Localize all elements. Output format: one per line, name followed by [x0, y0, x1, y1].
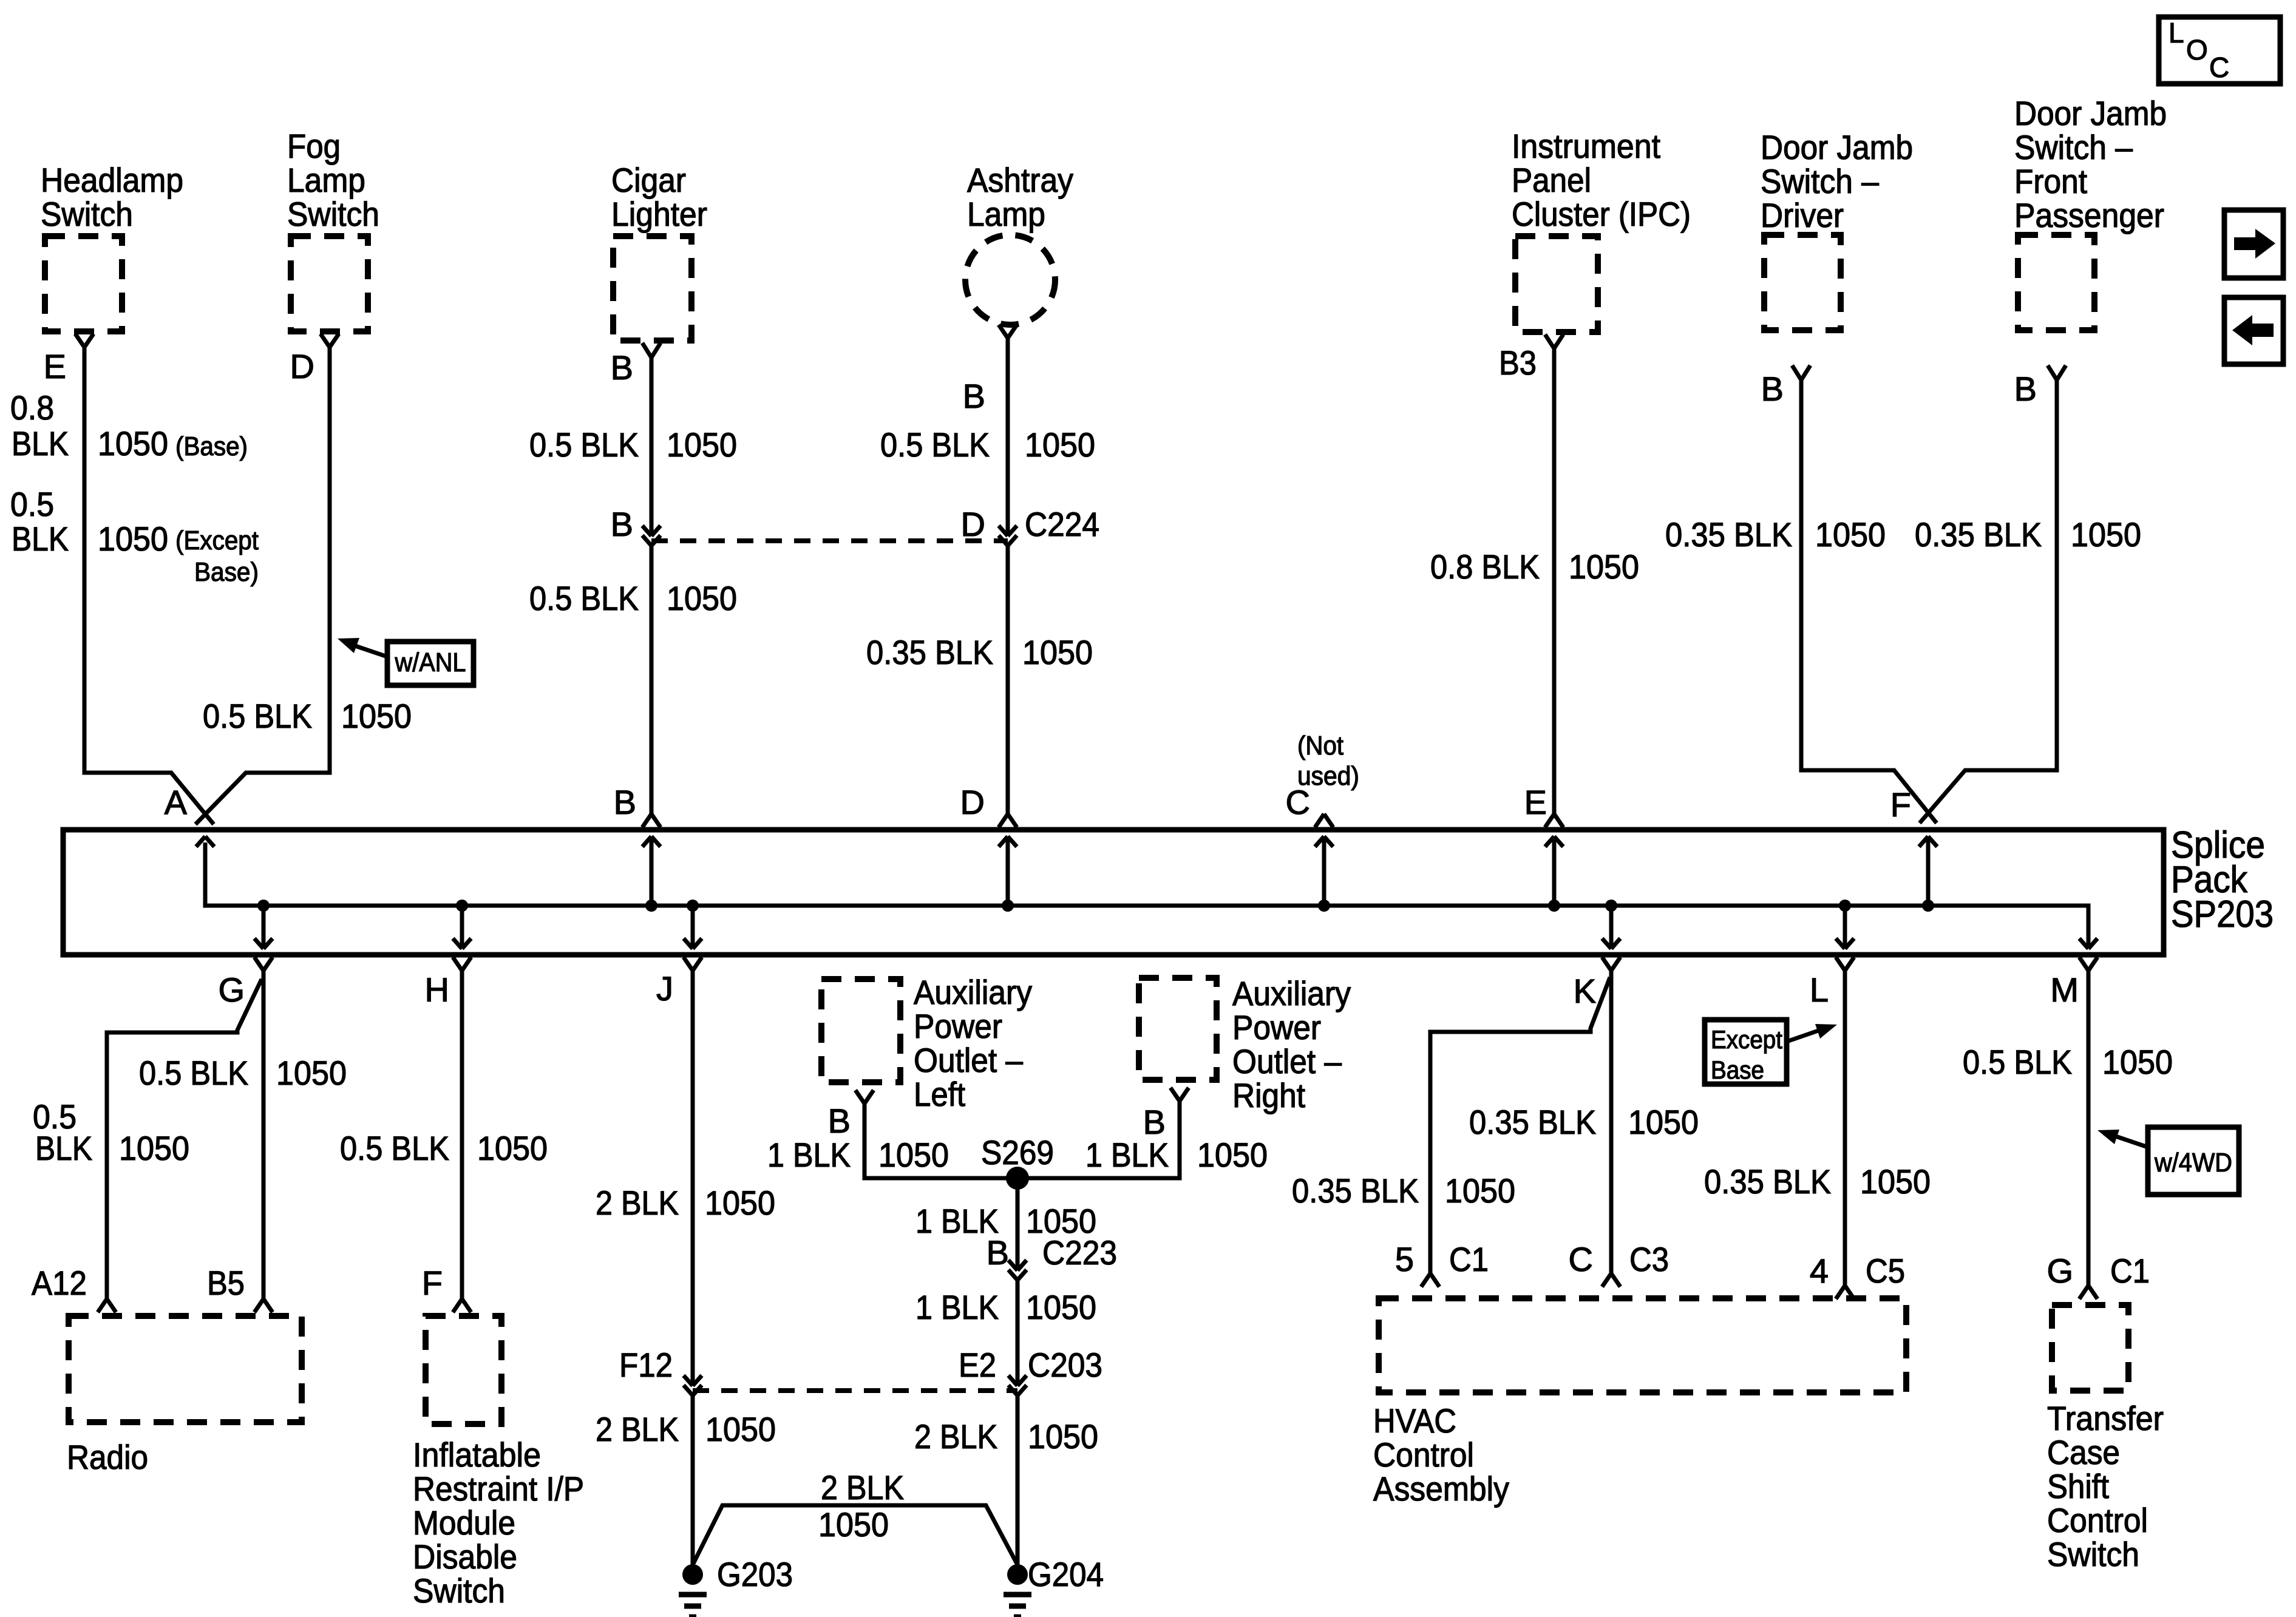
bus junction dot and up-arrow at terminal D: [1002, 900, 1014, 912]
ground G204: [1007, 1564, 1028, 1585]
svg-text:1050: 1050: [341, 697, 412, 735]
svg-text:Switch: Switch: [2047, 1535, 2139, 1573]
bus junction dot and up-arrow at terminal F: [1922, 900, 1934, 912]
svg-text:1050: 1050: [1628, 1103, 1699, 1141]
svg-text:Restraint I/P: Restraint I/P: [413, 1470, 584, 1508]
bus junction dot and up-arrow at terminal B: [645, 900, 657, 912]
wire from Aux Power Outlet Right pin B to splice S269 (1 BLK 1050): [1017, 1101, 1180, 1178]
svg-text:F: F: [422, 1264, 443, 1302]
svg-text:(Except: (Except: [175, 526, 259, 555]
arrow from w/ANL box to fog lamp wire: [355, 646, 387, 657]
svg-text:E: E: [1524, 783, 1547, 821]
svg-text:Control: Control: [1373, 1436, 1474, 1474]
wire from splice pin K to HVAC pin C C3 (0.35 BLK 1050): [1609, 971, 1614, 1273]
pin B3 of Instrument Panel Cluster: [1545, 334, 1554, 348]
wire from splice pin J to in-line connector C203 pin F12 (2 BLK 1050): [691, 971, 695, 1386]
svg-text:Passenger: Passenger: [2014, 196, 2164, 234]
wire from Door Jamb Switch Driver to splice node F (0.35 BLK 1050): [1801, 380, 1937, 823]
pin G C1 of Transfer Case Shift Control Switch: [2079, 1286, 2088, 1299]
svg-text:0.5 BLK: 0.5 BLK: [880, 425, 990, 464]
svg-text:C223: C223: [1042, 1233, 1117, 1272]
pin 4 C5 of HVAC Control Assembly: [1836, 1286, 1845, 1299]
svg-text:Control: Control: [2047, 1501, 2148, 1539]
svg-text:(Base): (Base): [175, 432, 248, 461]
pin C chevron on splice pack top edge (not used): [1315, 814, 1324, 827]
svg-text:0.5 BLK: 0.5 BLK: [1963, 1043, 2072, 1081]
wire from splice pin H to Inflatable Restraint module pin F (0.5 BLK 1050): [460, 971, 464, 1299]
component Inflatable Restraint I/P Module Disable Switch (dashed box): [426, 1316, 501, 1424]
svg-text:A: A: [165, 783, 188, 821]
svg-text:H: H: [425, 971, 449, 1009]
svg-text:Ashtray: Ashtray: [967, 161, 1073, 199]
svg-text:Door Jamb: Door Jamb: [1761, 128, 1913, 166]
left-arrow legend box: [2224, 297, 2283, 364]
svg-text:1050: 1050: [1445, 1171, 1515, 1210]
dashed connector line C203 between F12 and E2: [693, 1388, 1017, 1393]
svg-text:HVAC: HVAC: [1373, 1402, 1456, 1440]
svg-text:Auxiliary: Auxiliary: [914, 973, 1032, 1011]
wire from splice pin G to Radio pin B5 (0.5 BLK 1050): [262, 971, 266, 1299]
splice pin D on top edge: [999, 814, 1008, 827]
splice pin E on top edge: [1545, 814, 1554, 827]
svg-text:w/ANL: w/ANL: [395, 648, 466, 677]
svg-text:Lamp: Lamp: [287, 161, 365, 199]
svg-text:C1: C1: [2110, 1252, 2150, 1290]
svg-text:Shift: Shift: [2047, 1467, 2109, 1505]
svg-text:C1: C1: [1449, 1240, 1489, 1278]
svg-text:1050: 1050: [1197, 1136, 1268, 1174]
svg-text:C5: C5: [1866, 1252, 1905, 1290]
svg-text:E: E: [44, 347, 66, 385]
svg-text:B3: B3: [1499, 344, 1537, 382]
svg-text:Disable: Disable: [413, 1537, 517, 1576]
svg-text:1050: 1050: [98, 424, 168, 463]
jumper wire 2 BLK 1050 between grounds G203 and G204: [693, 1505, 1017, 1565]
component HVAC Control Assembly (dashed box): [1379, 1298, 1906, 1392]
svg-text:Left: Left: [914, 1075, 965, 1113]
svg-text:A12: A12: [32, 1264, 87, 1302]
svg-text:B: B: [2014, 370, 2037, 408]
pin B of Door Jamb Switch - Front Passenger: [2048, 365, 2057, 380]
splice pack SP203 box: [63, 830, 2164, 955]
svg-text:Except: Except: [1711, 1025, 1782, 1054]
svg-text:1050: 1050: [705, 1410, 776, 1448]
svg-text:C203: C203: [1028, 1346, 1102, 1384]
wire from splice pin L to HVAC pin 4 C5 (0.35 BLK 1050): [1843, 971, 1847, 1286]
pin B of Auxiliary Power Outlet - Left: [855, 1090, 864, 1103]
wire from Ashtray Lamp pin B to in-line connector C224 (0.5 BLK 1050): [1006, 338, 1010, 536]
dashed connector line C224 between cigar and ashtray wires: [651, 538, 1008, 543]
svg-text:K: K: [1574, 972, 1596, 1010]
svg-text:Driver: Driver: [1761, 196, 1844, 234]
svg-text:0.35 BLK: 0.35 BLK: [1292, 1171, 1419, 1210]
svg-text:L: L: [1810, 971, 1829, 1009]
bus junction dot and up-arrow at terminal E: [1548, 900, 1560, 912]
svg-text:1050: 1050: [1860, 1162, 1931, 1201]
pin F of Inflatable Restraint I/P Module Disable Switch: [453, 1299, 462, 1312]
svg-text:Auxiliary: Auxiliary: [1232, 974, 1351, 1012]
splice pin J on bottom edge: [684, 957, 693, 971]
wire from Aux Power Outlet Left pin B to splice S269 (1 BLK 1050): [864, 1103, 1017, 1178]
svg-text:0.5 BLK: 0.5 BLK: [139, 1054, 248, 1092]
svg-text:Base): Base): [194, 557, 259, 587]
bus down-arrow at terminal M: [2079, 938, 2088, 949]
svg-text:G203: G203: [717, 1555, 793, 1593]
svg-text:E2: E2: [959, 1346, 996, 1384]
svg-text:BLK: BLK: [35, 1129, 92, 1167]
svg-text:0.35 BLK: 0.35 BLK: [1704, 1162, 1831, 1201]
svg-text:B: B: [611, 505, 633, 543]
svg-text:0.5 BLK: 0.5 BLK: [529, 579, 639, 617]
svg-text:Cigar: Cigar: [611, 161, 686, 199]
wire from splice pin M to Transfer Case pin G C1 (0.5 BLK 1050): [2087, 971, 2091, 1286]
svg-text:Cluster (IPC): Cluster (IPC): [1512, 195, 1691, 233]
wire from IPC pin B3 to splice pin E (0.8 BLK 1050): [1552, 348, 1557, 814]
svg-text:0.5: 0.5: [10, 485, 54, 523]
splice pin B on top edge: [642, 814, 651, 827]
svg-text:Switch: Switch: [413, 1571, 505, 1610]
splice pin M on bottom edge: [2079, 957, 2088, 971]
svg-text:1050: 1050: [477, 1129, 548, 1167]
bus junction dot and down-arrow at terminal J: [687, 900, 699, 912]
pin B of Cigar Lighter: [642, 343, 651, 358]
pin 5 C1 of HVAC Control Assembly: [1421, 1273, 1430, 1287]
svg-text:Outlet –: Outlet –: [914, 1041, 1024, 1079]
svg-text:Fog: Fog: [287, 127, 341, 165]
svg-text:F: F: [1890, 785, 1911, 824]
svg-text:G: G: [2046, 1252, 2073, 1290]
svg-text:0.35 BLK: 0.35 BLK: [1665, 515, 1792, 554]
callout box w/ANL: [387, 642, 474, 685]
svg-text:Lamp: Lamp: [967, 195, 1045, 233]
wire from Fog Lamp Switch pin D to splice node A (0.5 BLK 1050): [195, 347, 330, 824]
svg-text:BLK: BLK: [12, 424, 69, 463]
svg-text:(Not: (Not: [1297, 731, 1343, 761]
svg-text:Door Jamb: Door Jamb: [2014, 94, 2167, 132]
svg-text:C: C: [1286, 783, 1310, 821]
svg-text:1 BLK: 1 BLK: [915, 1288, 999, 1326]
svg-text:Switch: Switch: [41, 195, 133, 233]
component Instrument Panel Cluster (dashed box): [1515, 236, 1598, 332]
svg-text:0.5 BLK: 0.5 BLK: [529, 425, 639, 464]
svg-text:Radio: Radio: [67, 1438, 148, 1476]
splice pin K on bottom edge: [1602, 957, 1611, 971]
svg-text:0.8 BLK: 0.8 BLK: [1430, 547, 1540, 586]
wire from Headlamp Switch pin E to splice node A (0.8/0.5 BLK 1050): [84, 347, 214, 824]
wire from connector C223 to connector C203 pin E2 (1 BLK 1050): [1016, 1280, 1020, 1386]
svg-text:Transfer: Transfer: [2047, 1399, 2164, 1437]
svg-text:B5: B5: [207, 1264, 245, 1302]
svg-text:1050: 1050: [667, 579, 737, 617]
svg-text:0.35 BLK: 0.35 BLK: [866, 633, 993, 671]
svg-text:1050: 1050: [1028, 1417, 1098, 1456]
svg-text:1050: 1050: [818, 1505, 889, 1544]
bus junction dot and down-arrow at terminal L: [1839, 900, 1851, 912]
svg-text:O: O: [2186, 34, 2208, 66]
bus junction dot and down-arrow at terminal H: [456, 900, 468, 912]
svg-text:Base: Base: [1711, 1056, 1764, 1084]
svg-text:Switch: Switch: [287, 195, 379, 233]
svg-text:5: 5: [1395, 1240, 1414, 1278]
svg-text:Power: Power: [1232, 1008, 1321, 1046]
svg-text:Panel: Panel: [1512, 161, 1591, 199]
component Ashtray Lamp (dashed circle): [965, 235, 1055, 325]
in-line connector C203 pin F12 on J wire: [684, 1375, 693, 1386]
pin E of Headlamp Switch: [75, 334, 84, 347]
component Transfer Case Shift Control Switch (dashed box): [2052, 1305, 2128, 1391]
LOC legend box: [2159, 17, 2280, 84]
svg-text:SP203: SP203: [2171, 893, 2274, 935]
splice pin H on bottom edge: [453, 957, 462, 971]
splice S269 junction dot: [1006, 1167, 1029, 1190]
component Fog Lamp Switch (dashed box): [291, 236, 368, 331]
svg-text:C: C: [1569, 1240, 1593, 1278]
pin A12 of Radio: [98, 1299, 107, 1312]
pin B of Door Jamb Switch - Driver: [1792, 365, 1801, 380]
svg-text:B: B: [1761, 370, 1784, 408]
svg-text:Outlet –: Outlet –: [1232, 1042, 1342, 1080]
svg-text:Instrument: Instrument: [1512, 127, 1660, 165]
svg-text:w/4WD: w/4WD: [2154, 1148, 2232, 1178]
wire from connector C224 to splice pin B (0.5 BLK 1050): [650, 546, 654, 814]
svg-text:1 BLK: 1 BLK: [767, 1136, 851, 1174]
bus junction dot and up-arrow at terminal C: [1318, 900, 1330, 912]
svg-text:1050: 1050: [2071, 515, 2141, 554]
svg-text:G204: G204: [1028, 1555, 1104, 1593]
svg-text:2 BLK: 2 BLK: [596, 1410, 679, 1448]
svg-text:1050: 1050: [1026, 1288, 1096, 1326]
svg-text:2 BLK: 2 BLK: [596, 1184, 679, 1222]
wire from Cigar Lighter pin B to in-line connector C224 (0.5 BLK 1050): [650, 358, 654, 536]
svg-text:J: J: [656, 969, 673, 1008]
pin B of Auxiliary Power Outlet - Right: [1170, 1088, 1180, 1101]
svg-text:D: D: [960, 783, 985, 821]
in-line connector C224 pin D on ashtray lamp wire: [999, 526, 1008, 536]
wire from Door Jamb Switch Front Passenger to splice node F (0.35 BLK 1050): [1920, 380, 2057, 823]
component Cigar Lighter (dashed box): [613, 236, 691, 341]
in-line connector C224 pin B on cigar lighter wire: [642, 526, 651, 536]
wire from connector C203 to ground G204 (2 BLK 1050): [1016, 1395, 1020, 1565]
svg-text:Assembly: Assembly: [1373, 1470, 1509, 1508]
svg-text:1050: 1050: [1815, 515, 1886, 554]
svg-text:G: G: [218, 971, 245, 1009]
component Headlamp Switch (dashed box): [45, 236, 122, 331]
svg-text:B: B: [614, 783, 636, 821]
svg-text:B: B: [987, 1233, 1009, 1272]
bus junction dot and down-arrow at terminal G: [257, 900, 270, 912]
svg-text:L: L: [2169, 17, 2184, 49]
pin B5 of Radio: [254, 1299, 263, 1312]
svg-text:Switch –: Switch –: [1761, 162, 1880, 200]
svg-text:B: B: [828, 1102, 851, 1140]
svg-text:D: D: [290, 347, 314, 385]
svg-text:0.8: 0.8: [10, 388, 54, 427]
svg-text:2 BLK: 2 BLK: [821, 1468, 904, 1507]
splice pin G on bottom edge: [254, 957, 263, 971]
wire from connector C203 to ground G203 (2 BLK 1050): [691, 1395, 695, 1565]
arrow from w/4WD box to M wire: [2116, 1136, 2148, 1147]
component Auxiliary Power Outlet - Left (dashed box): [821, 979, 900, 1082]
splice pin L on bottom edge: [1836, 957, 1845, 971]
in-line connector C203 pin E2: [1008, 1375, 1017, 1386]
svg-text:C3: C3: [1629, 1240, 1669, 1278]
svg-text:Inflatable: Inflatable: [413, 1436, 541, 1474]
svg-text:Power: Power: [914, 1007, 1002, 1045]
svg-text:C: C: [2209, 52, 2229, 83]
svg-text:Lighter: Lighter: [611, 195, 707, 233]
svg-text:0.5 BLK: 0.5 BLK: [340, 1129, 449, 1167]
bus junction dot and down-arrow at terminal K: [1605, 900, 1617, 912]
component Auxiliary Power Outlet - Right (dashed box): [1139, 978, 1217, 1080]
bus up-arrow at terminal A: [196, 836, 205, 847]
svg-text:Case: Case: [2047, 1433, 2120, 1471]
wire from S269 to in-line connector C223 pin B (1 BLK 1050): [1016, 1178, 1020, 1270]
svg-text:1050: 1050: [1022, 633, 1093, 671]
pin B of Ashtray Lamp: [999, 325, 1008, 338]
pin C C3 of HVAC Control Assembly: [1602, 1273, 1611, 1287]
component Radio (dashed box): [69, 1316, 302, 1422]
in-line connector C223 pin B: [1008, 1260, 1017, 1270]
svg-text:0.35 BLK: 0.35 BLK: [1915, 515, 2042, 554]
svg-text:1050: 1050: [276, 1054, 347, 1092]
svg-text:2 BLK: 2 BLK: [914, 1417, 997, 1456]
svg-text:S269: S269: [981, 1133, 1054, 1171]
component Door Jamb Switch - Front Passenger (dashed box): [2018, 235, 2094, 330]
svg-text:F12: F12: [619, 1346, 673, 1384]
svg-text:C224: C224: [1025, 505, 1099, 543]
svg-text:Right: Right: [1232, 1076, 1305, 1114]
branch wire from G wire to Radio pin A12 (0.5 BLK 1050): [107, 979, 262, 1299]
splice pack internal bus wire: [205, 842, 2088, 947]
svg-text:1050: 1050: [1025, 425, 1095, 464]
svg-text:B: B: [611, 348, 633, 387]
wire from connector C224 to splice pin D (0.35 BLK 1050): [1006, 546, 1010, 814]
svg-text:0.35 BLK: 0.35 BLK: [1469, 1103, 1596, 1141]
pin D of Fog Lamp Switch: [321, 334, 330, 347]
callout box w/4WD: [2148, 1127, 2239, 1195]
svg-text:Switch –: Switch –: [2014, 128, 2133, 166]
callout box Except Base: [1705, 1020, 1787, 1084]
svg-text:1 BLK: 1 BLK: [1085, 1136, 1169, 1174]
svg-text:1050: 1050: [98, 520, 168, 558]
arrow from Except Base box to L wire: [1787, 1031, 1818, 1042]
svg-text:Front: Front: [2014, 162, 2087, 200]
ground G203: [682, 1564, 703, 1585]
svg-text:M: M: [2050, 971, 2079, 1009]
svg-text:Headlamp: Headlamp: [41, 161, 183, 199]
branch wire from K to HVAC pin 5 C1 (0.35 BLK 1050): [1430, 977, 1610, 1273]
svg-text:0.5 BLK: 0.5 BLK: [203, 697, 312, 735]
svg-text:1050: 1050: [2102, 1043, 2173, 1081]
svg-text:4: 4: [1810, 1252, 1829, 1290]
component Door Jamb Switch - Driver (dashed box): [1764, 235, 1841, 330]
svg-text:Module: Module: [413, 1503, 515, 1542]
svg-text:1050: 1050: [705, 1184, 775, 1222]
svg-text:B: B: [963, 377, 985, 415]
svg-text:D: D: [961, 505, 985, 543]
svg-text:1050: 1050: [1569, 547, 1639, 586]
svg-text:1050: 1050: [119, 1129, 189, 1167]
svg-text:1050: 1050: [667, 425, 737, 464]
svg-text:BLK: BLK: [12, 520, 69, 558]
right-arrow legend box: [2224, 210, 2283, 278]
svg-text:1050: 1050: [878, 1136, 949, 1174]
